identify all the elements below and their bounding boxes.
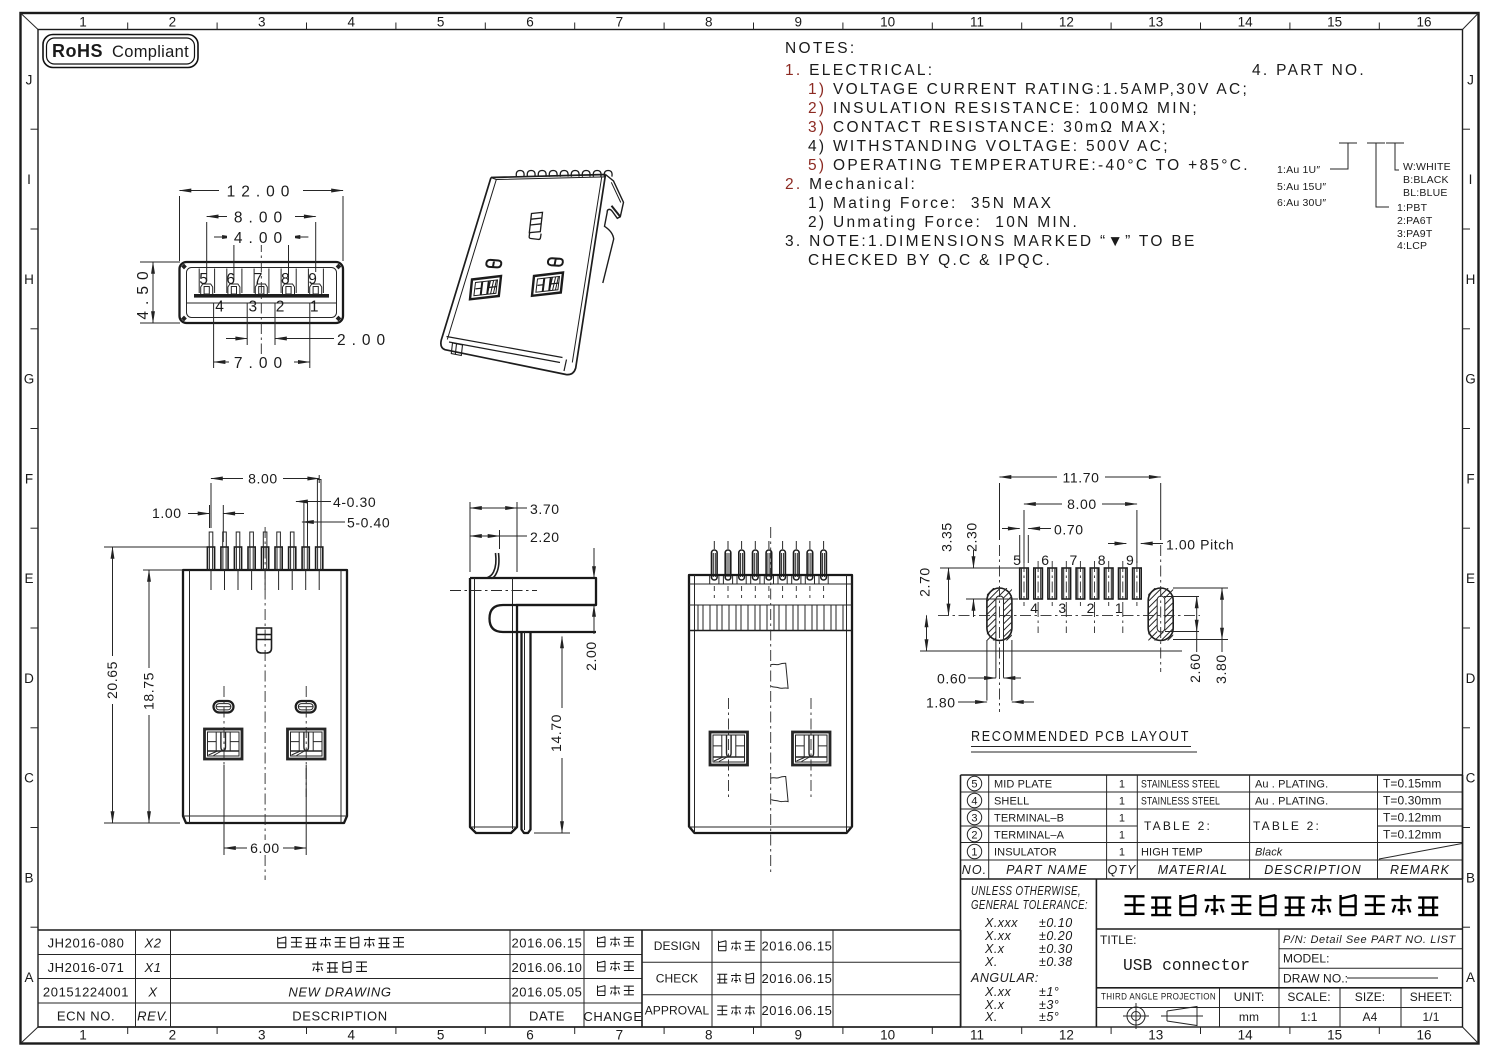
center axis (770, 527, 772, 872)
dim 3.35 (948, 568, 950, 615)
svg-text:APPROVAL: APPROVAL (645, 1004, 710, 1018)
svg-text:X.xx: X.xx (984, 929, 1012, 943)
color bracket (1386, 143, 1404, 170)
tongue plate (194, 294, 329, 298)
svg-text:USB connector: USB connector (1123, 957, 1250, 976)
windows (205, 729, 243, 759)
svg-text:4: 4 (347, 15, 355, 30)
svg-text:2) Unmating Force: 10N MIN.: 2) Unmating Force: 10N MIN. (808, 214, 1079, 231)
svg-text:ECN NO.: ECN NO. (57, 1009, 115, 1024)
body outline (441, 175, 606, 375)
lower contact lines (213, 303, 215, 312)
SMT pads (1020, 568, 1029, 599)
svg-text:QTY: QTY (1108, 863, 1138, 877)
slots (214, 701, 234, 713)
svg-text:X.: X. (984, 1010, 998, 1024)
svg-text:RoHS: RoHS (52, 41, 103, 61)
svg-text:I: I (1469, 172, 1473, 187)
svg-text:2016.06.15: 2016.06.15 (761, 971, 832, 986)
svg-text:T=0.12mm: T=0.12mm (1383, 811, 1442, 825)
svg-text:STAINLESS STEEL: STAINLESS STEEL (1141, 779, 1220, 791)
svg-text:5) OPERATING TEMPERATURE:-40°C: 5) OPERATING TEMPERATURE:-40°C TO +85°C. (808, 157, 1250, 174)
svg-text:X.: X. (984, 955, 998, 969)
svg-text:±0.20: ±0.20 (1039, 929, 1073, 943)
dim 7.00 (213, 312, 215, 368)
crimp hatch band (698, 605, 843, 631)
svg-text:1: 1 (1119, 847, 1125, 859)
svg-text:11: 11 (970, 1028, 984, 1043)
svg-text:8.00: 8.00 (248, 471, 278, 487)
svg-text:1.80: 1.80 (926, 695, 956, 711)
latch hook (603, 175, 624, 284)
svg-text:6:Au 30U″: 6:Au 30U″ (1277, 197, 1326, 209)
side body outline (470, 578, 596, 833)
dim 3.80 (1221, 588, 1223, 640)
svg-text:12: 12 (1059, 1028, 1074, 1043)
svg-text:J: J (1467, 72, 1474, 87)
svg-text:UNLESS OTHERWISE,: UNLESS OTHERWISE, (971, 884, 1081, 898)
svg-text:2: 2 (169, 1028, 177, 1043)
svg-text:P/N: Detail See PART NO. LIST: P/N: Detail See PART NO. LIST (1283, 934, 1457, 946)
dim 8.00 (pins) (210, 483, 212, 528)
body outline (689, 575, 852, 833)
svg-text:T=0.30mm: T=0.30mm (1383, 794, 1442, 808)
svg-text:J: J (26, 72, 33, 87)
svg-text:16: 16 (1416, 1028, 1431, 1043)
svg-text:3: 3 (258, 1028, 266, 1043)
svg-text:1: 1 (1115, 600, 1123, 616)
svg-text:2016.06.15: 2016.06.15 (761, 939, 832, 954)
svg-text:6: 6 (1041, 552, 1049, 568)
svg-text:2: 2 (276, 299, 285, 316)
svg-text:8: 8 (705, 15, 713, 30)
dim 2.70 (926, 615, 928, 651)
svg-text:MODEL:: MODEL: (1283, 952, 1330, 966)
svg-text:1: 1 (1119, 796, 1125, 808)
bent SMT pin (488, 553, 499, 579)
svg-text:±0.30: ±0.30 (1039, 942, 1073, 956)
dim 2.00 (246, 312, 248, 345)
svg-text:15: 15 (1327, 15, 1342, 30)
svg-text:1. ELECTRICAL:: 1. ELECTRICAL: (785, 62, 934, 79)
isometric 3D view of connector (441, 170, 624, 374)
contacts 5-9 (201, 284, 213, 294)
svg-text:CHANGE: CHANGE (583, 1009, 642, 1024)
dim 6.00 (223, 765, 225, 855)
svg-text:15: 15 (1327, 1028, 1342, 1043)
svg-text:CHECK: CHECK (656, 971, 699, 985)
parts list table (961, 775, 1463, 879)
svg-text:5: 5 (437, 1028, 445, 1043)
svg-text:PART NAME: PART NAME (1006, 863, 1088, 877)
svg-text:8.00: 8.00 (234, 210, 288, 227)
svg-text:10: 10 (880, 1028, 895, 1043)
svg-text:4-0.30: 4-0.30 (333, 494, 376, 510)
flange (490, 605, 597, 632)
header row (962, 863, 1450, 877)
svg-text:1: 1 (79, 15, 87, 30)
centerline (260, 241, 262, 356)
dim 1.00 Pitch (1108, 543, 1126, 545)
svg-text:X1: X1 (143, 960, 161, 975)
svg-text:H: H (24, 272, 34, 287)
svg-text:5-0.40: 5-0.40 (347, 515, 390, 531)
svg-text:1: 1 (1119, 779, 1125, 791)
dim 20.65 (104, 546, 209, 548)
svg-text:1) VOLTAGE CURRENT RATING:1.5A: 1) VOLTAGE CURRENT RATING:1.5AMP,30V AC; (808, 81, 1249, 98)
dim 2.00 (arm) (593, 548, 595, 578)
reference lines (940, 567, 1020, 569)
svg-text:A: A (1466, 970, 1475, 985)
svg-text:H: H (1466, 272, 1476, 287)
svg-text:3.80: 3.80 (1213, 654, 1229, 684)
svg-text:5:Au 15U″: 5:Au 15U″ (1277, 181, 1326, 193)
svg-text:±0.38: ±0.38 (1039, 955, 1073, 969)
svg-text:1) Mating Force: 35N MAX: 1) Mating Force: 35N MAX (808, 195, 1053, 212)
top plan view (104, 470, 390, 880)
svg-text:THIRD ANGLE PROJECTION: THIRD ANGLE PROJECTION (1101, 992, 1216, 1003)
svg-text:F: F (1466, 471, 1474, 486)
svg-text:8: 8 (705, 1028, 713, 1043)
svg-text:5: 5 (437, 15, 445, 30)
body outline (183, 570, 347, 823)
svg-text:X.x: X.x (984, 942, 1005, 956)
svg-text:7: 7 (616, 1028, 624, 1043)
slot right (548, 258, 563, 266)
recommended PCB layout (917, 469, 1235, 752)
RoHS Compliant label (43, 35, 198, 68)
svg-text:6.00: 6.00 (250, 840, 280, 856)
windows (710, 732, 748, 765)
svg-text:TERMINAL–A: TERMINAL–A (994, 830, 1065, 842)
svg-text:0.60: 0.60 (937, 671, 967, 687)
centerline (264, 527, 266, 880)
svg-text:1:Au 1U″: 1:Au 1U″ (1277, 164, 1320, 176)
svg-text:4: 4 (347, 1028, 355, 1043)
svg-text:T=0.12mm: T=0.12mm (1383, 828, 1442, 842)
svg-text:1/1: 1/1 (1423, 1010, 1440, 1024)
svg-text:3.35: 3.35 (939, 522, 955, 552)
svg-text:Black: Black (1255, 847, 1283, 859)
svg-text:2: 2 (169, 15, 177, 30)
svg-text:DATE: DATE (529, 1009, 565, 1024)
svg-text:4.00: 4.00 (234, 230, 288, 247)
svg-text:mm: mm (1239, 1010, 1259, 1024)
svg-text:2.30: 2.30 (964, 522, 980, 552)
svg-text:4) WITHSTANDING VOLTAGE: 500V: 4) WITHSTANDING VOLTAGE: 500V AC; (808, 138, 1170, 155)
bottom cavity opening (447, 337, 567, 372)
svg-text:1.00: 1.00 (152, 505, 182, 521)
material bracket (1367, 143, 1389, 207)
projection symbols (1127, 1007, 1145, 1025)
svg-text:2.00: 2.00 (337, 332, 391, 349)
svg-text:INSULATOR: INSULATOR (994, 847, 1057, 859)
contact channels (198, 269, 200, 294)
svg-text:4.50: 4.50 (135, 265, 152, 319)
dim 2.60 (1164, 596, 1199, 598)
svg-text:TITLE:: TITLE: (1100, 933, 1137, 947)
svg-text:2016.05.05: 2016.05.05 (511, 984, 582, 999)
svg-text:4: 4 (971, 796, 977, 808)
svg-text:±1°: ±1° (1039, 985, 1059, 999)
svg-text:12: 12 (1059, 15, 1074, 30)
svg-text:NO.: NO. (962, 863, 988, 877)
svg-text:1:1: 1:1 (1301, 1010, 1318, 1024)
svg-text:14.70: 14.70 (548, 714, 564, 752)
right hole closed slot (1157, 596, 1165, 632)
wire plating bracket (1330, 143, 1357, 169)
centerline (450, 590, 537, 592)
svg-text:W:WHITE: W:WHITE (1403, 161, 1451, 173)
svg-text:ANGULAR:: ANGULAR: (970, 971, 1039, 985)
svg-text:8: 8 (1098, 552, 1106, 568)
svg-text:3. NOTE:1.DIMENSIONS MARKED “▼: 3. NOTE:1.DIMENSIONS MARKED “▼” TO BE (785, 233, 1197, 250)
svg-text:B:BLACK: B:BLACK (1403, 174, 1449, 186)
svg-text:1:PBT: 1:PBT (1397, 202, 1428, 214)
callout 4-0.30 (296, 501, 331, 503)
svg-text:Au . PLATING.: Au . PLATING. (1255, 779, 1328, 791)
svg-text:REMARK: REMARK (1390, 863, 1450, 877)
dim 3.70 (469, 502, 471, 572)
svg-text:4. PART NO.: 4. PART NO. (1252, 62, 1366, 79)
dim 4.00 (233, 243, 235, 280)
svg-text:E: E (1466, 571, 1475, 586)
svg-text:B: B (24, 870, 33, 885)
svg-text:NEW DRAWING: NEW DRAWING (288, 984, 391, 999)
dim 12.00 (179, 196, 181, 261)
svg-text:DESCRIPTION: DESCRIPTION (1264, 863, 1362, 877)
svg-text:3) CONTACT RESISTANCE: 30mΩ MA: 3) CONTACT RESISTANCE: 30mΩ MAX; (808, 119, 1168, 136)
svg-text:8.00: 8.00 (1067, 496, 1097, 512)
dim 18.75 (143, 569, 183, 571)
circled item numbers (967, 776, 981, 790)
svg-text:X.xx: X.xx (984, 985, 1012, 999)
svg-text:TABLE 2:: TABLE 2: (1253, 819, 1321, 833)
svg-text:1: 1 (1119, 813, 1125, 825)
svg-text:9: 9 (308, 271, 317, 288)
bottom view (689, 527, 852, 872)
svg-text:2016.06.10: 2016.06.10 (511, 960, 582, 975)
title block (1096, 895, 1462, 1029)
svg-text:14: 14 (1238, 1028, 1254, 1043)
svg-text:SHELL: SHELL (994, 796, 1029, 808)
svg-text:X2: X2 (143, 936, 161, 951)
svg-text:MID PLATE: MID PLATE (994, 779, 1052, 791)
remark diagonal (1379, 844, 1462, 860)
dim 4.50 (140, 261, 180, 263)
svg-text:7: 7 (1070, 552, 1078, 568)
svg-text:B: B (1466, 870, 1475, 885)
svg-text:Au . PLATING.: Au . PLATING. (1255, 796, 1328, 808)
svg-text:SIZE:: SIZE: (1355, 990, 1386, 1004)
dim 0.70 (1019, 535, 1021, 563)
svg-text:3: 3 (1058, 600, 1066, 616)
svg-text:2.70: 2.70 (917, 567, 933, 597)
svg-text:1: 1 (310, 299, 319, 316)
svg-text:2016.06.15: 2016.06.15 (511, 936, 582, 951)
svg-text:13: 13 (1148, 1028, 1163, 1043)
company name (CJK) (1125, 895, 1439, 915)
svg-text:6: 6 (526, 1028, 534, 1043)
inner edges (447, 177, 605, 340)
svg-text:MATERIAL: MATERIAL (1158, 863, 1228, 877)
svg-text:2) INSULATION RESISTANCE: 100M: 2) INSULATION RESISTANCE: 100MΩ MIN; (808, 100, 1199, 117)
svg-text:F: F (25, 471, 33, 486)
dim 14.70 (534, 832, 570, 834)
approval table (642, 930, 961, 1027)
svg-text:NOTES:: NOTES: (785, 40, 857, 57)
window right (532, 273, 563, 296)
svg-text:T=0.15mm: T=0.15mm (1383, 777, 1442, 791)
pins with capsule bodies (713, 541, 715, 549)
svg-text:12.00: 12.00 (227, 184, 296, 201)
dim 8.00 (206, 222, 208, 281)
svg-text:7.00: 7.00 (234, 355, 288, 372)
detent hole (529, 212, 542, 239)
svg-text:A: A (24, 970, 33, 985)
svg-text:D: D (24, 671, 34, 686)
detent feature (257, 628, 272, 653)
svg-text:9: 9 (794, 1028, 802, 1043)
svg-text:20151224001: 20151224001 (43, 984, 129, 999)
svg-text:2:PA6T: 2:PA6T (1397, 215, 1433, 227)
svg-text:CHECKED BY Q.C & IPQC.: CHECKED BY Q.C & IPQC. (808, 252, 1052, 269)
svg-text:JH2016-071: JH2016-071 (48, 960, 125, 975)
svg-text:JH2016-080: JH2016-080 (48, 936, 125, 951)
callout 5-0.40 (302, 521, 345, 523)
svg-text:7: 7 (616, 15, 624, 30)
svg-text:SCALE:: SCALE: (1287, 990, 1330, 1004)
dim 2.30 (973, 550, 975, 568)
svg-text:3: 3 (258, 15, 266, 30)
svg-text:E: E (24, 571, 33, 586)
svg-text:2.60: 2.60 (1187, 653, 1203, 683)
svg-text:G: G (24, 372, 35, 387)
pin bumps along top (516, 170, 524, 176)
svg-text:3:PA9T: 3:PA9T (1397, 228, 1433, 240)
svg-text:C: C (24, 771, 34, 786)
svg-text:11.70: 11.70 (1063, 470, 1100, 486)
svg-text:2.20: 2.20 (530, 529, 560, 545)
svg-text:X.xxx: X.xxx (984, 916, 1018, 930)
centerlines (999, 545, 1001, 712)
svg-text:C: C (1466, 771, 1476, 786)
svg-text:RECOMMENDED PCB LAYOUT: RECOMMENDED PCB LAYOUT (971, 728, 1190, 745)
svg-text:10: 10 (880, 15, 895, 30)
svg-text:2. Mechanical:: 2. Mechanical: (785, 176, 917, 193)
svg-text:18.75: 18.75 (141, 672, 157, 710)
svg-text:STAINLESS STEEL: STAINLESS STEEL (1141, 796, 1220, 808)
svg-text:HIGH TEMP: HIGH TEMP (1141, 847, 1203, 859)
svg-text:I: I (27, 172, 31, 187)
shell outline (180, 262, 344, 323)
revision history table (38, 930, 643, 1027)
svg-text:UNIT:: UNIT: (1234, 990, 1265, 1004)
svg-text:4: 4 (1030, 600, 1038, 616)
svg-text:D: D (1466, 671, 1476, 686)
svg-text:20.65: 20.65 (104, 661, 120, 699)
svg-text:BL:BLUE: BL:BLUE (1403, 187, 1448, 199)
svg-text:3: 3 (248, 299, 257, 316)
svg-text:9: 9 (794, 15, 802, 30)
mold notches on axis (770, 663, 788, 688)
dim 8.00 (1023, 510, 1025, 563)
svg-text:SHEET:: SHEET: (1410, 990, 1453, 1004)
svg-text:Compliant: Compliant (112, 43, 189, 61)
svg-text:GENERAL TOLERANCE:: GENERAL TOLERANCE: (971, 898, 1088, 912)
notes text block (785, 40, 1250, 269)
left hole open slot (996, 596, 1004, 678)
svg-text:16: 16 (1416, 15, 1431, 30)
svg-text:13: 13 (1148, 15, 1163, 30)
svg-text:1: 1 (971, 847, 977, 859)
svg-text:X: X (147, 984, 158, 999)
svg-text:A4: A4 (1363, 1010, 1378, 1024)
svg-text:4:LCP: 4:LCP (1397, 240, 1427, 252)
pins (9) on top (207, 547, 214, 570)
side view (450, 501, 599, 833)
svg-text:5: 5 (971, 779, 977, 791)
svg-text:±5°: ±5° (1039, 1010, 1059, 1024)
svg-text:4: 4 (215, 299, 224, 316)
tolerance block (961, 879, 1097, 1027)
svg-text:9: 9 (1126, 552, 1134, 568)
svg-text:DESIGN: DESIGN (654, 939, 701, 953)
svg-text:14: 14 (1238, 15, 1254, 30)
dim 11.70 (999, 483, 1001, 540)
svg-text:6: 6 (526, 15, 534, 30)
svg-text:DRAW NO.:: DRAW NO.: (1283, 972, 1348, 986)
svg-text:±0.10: ±0.10 (1039, 916, 1073, 930)
svg-text:11: 11 (970, 15, 984, 30)
svg-text:1.00 Pitch: 1.00 Pitch (1166, 537, 1234, 553)
board leg (522, 632, 531, 833)
svg-text:TABLE 2:: TABLE 2: (1144, 819, 1212, 833)
part number legend (1252, 62, 1451, 252)
window left (470, 276, 501, 299)
svg-text:2016.06.15: 2016.06.15 (761, 1003, 832, 1018)
svg-text:1: 1 (79, 1028, 87, 1043)
svg-text:0.70: 0.70 (1054, 522, 1084, 538)
svg-text:3: 3 (971, 813, 977, 825)
front face view of USB plug (135, 182, 391, 372)
svg-text:3.70: 3.70 (530, 501, 560, 517)
svg-text:DESCRIPTION: DESCRIPTION (292, 1009, 387, 1024)
svg-text:2: 2 (1087, 600, 1095, 616)
svg-text:TERMINAL–B: TERMINAL–B (994, 813, 1064, 825)
svg-text:2.00: 2.00 (583, 641, 599, 671)
slot left (486, 258, 563, 267)
svg-text:1: 1 (1119, 830, 1125, 842)
svg-text:G: G (1465, 372, 1476, 387)
dim 2.20 (499, 530, 501, 549)
svg-text:REV.: REV. (137, 1009, 169, 1024)
slot extension lines (986, 640, 988, 701)
svg-text:2: 2 (971, 830, 977, 842)
